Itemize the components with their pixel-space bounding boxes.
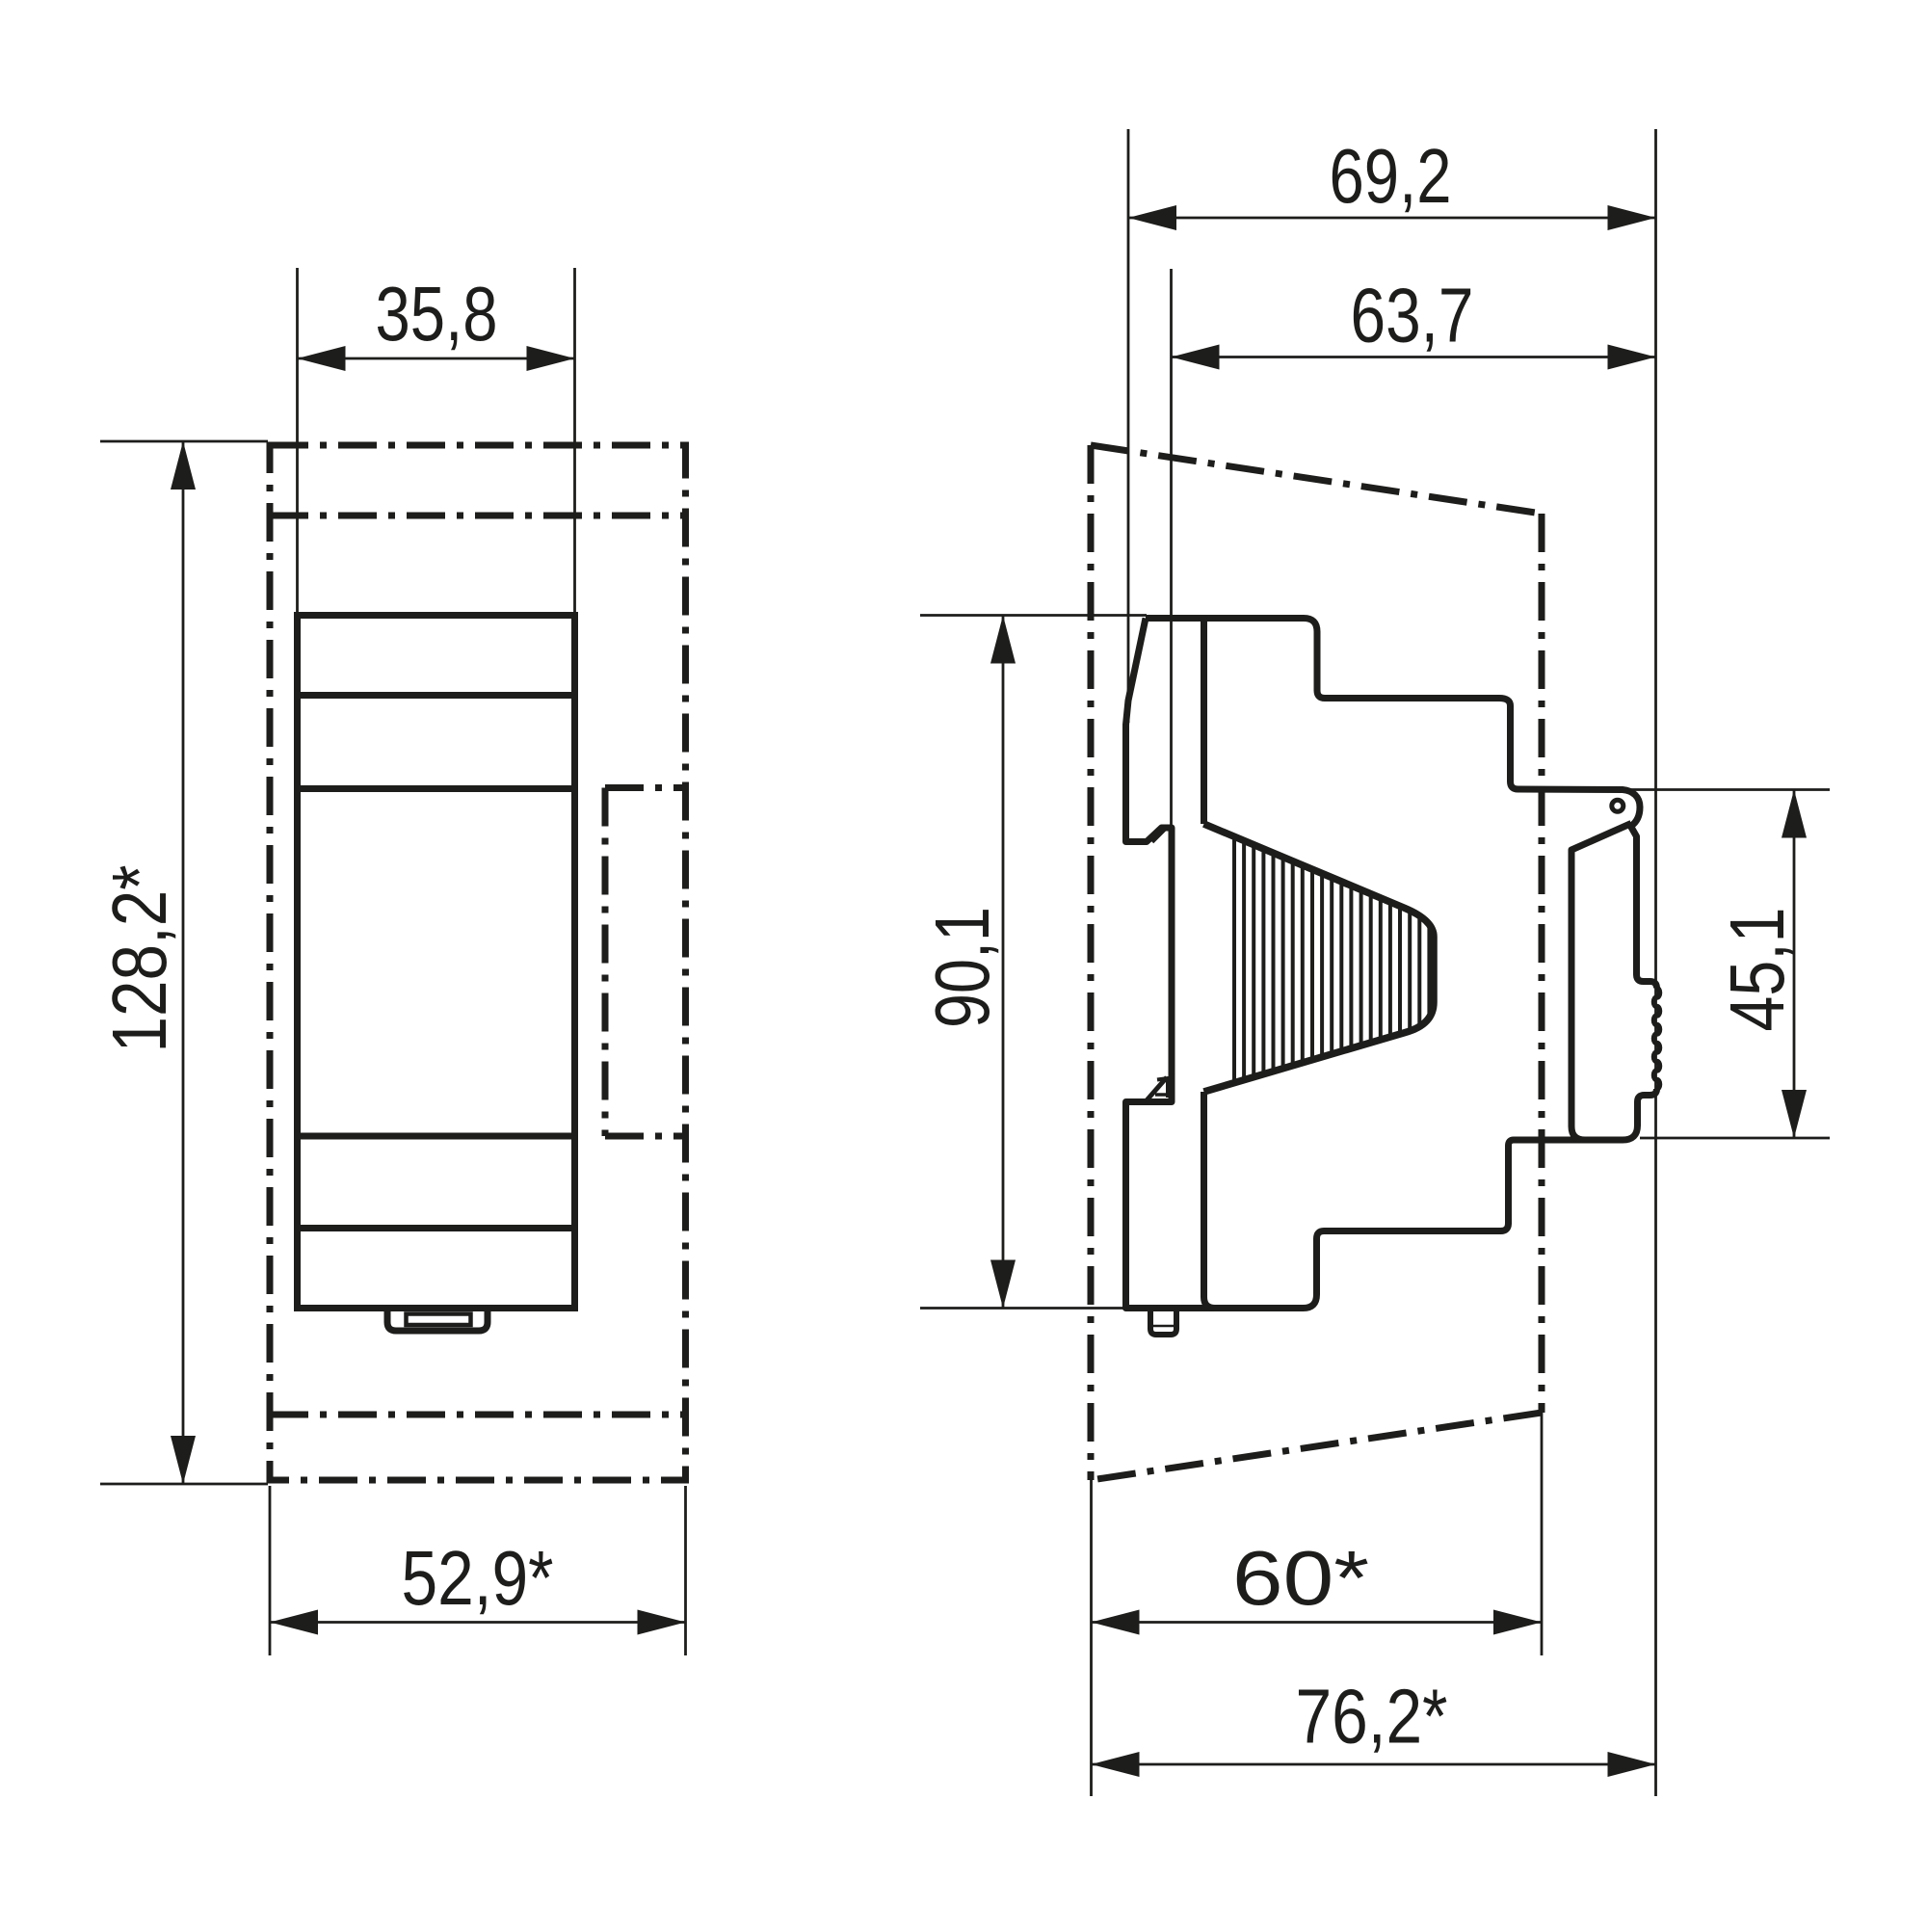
svg-text:45,1: 45,1 [1714,908,1800,1032]
svg-text:90,1: 90,1 [919,907,1005,1028]
svg-text:76,2*: 76,2* [1296,1674,1448,1760]
svg-text:69,2: 69,2 [1330,133,1452,219]
svg-text:52,9*: 52,9* [402,1535,554,1621]
svg-text:35,8: 35,8 [376,271,498,357]
svg-text:128,2*: 128,2* [96,865,182,1053]
svg-text:60*: 60* [1232,1535,1369,1621]
svg-text:63,7: 63,7 [1351,273,1474,358]
